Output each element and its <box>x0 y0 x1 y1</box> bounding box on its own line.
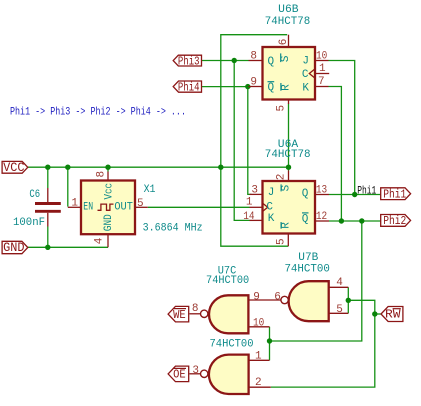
svg-text:Phi1: Phi1 <box>383 187 406 201</box>
svg-text:6: 6 <box>274 291 281 303</box>
svg-text:5: 5 <box>336 304 343 316</box>
junction Phi2 node A <box>339 218 344 223</box>
pin 8 U7C <box>189 313 200 315</box>
capacitor C6 bottom lead <box>47 213 49 227</box>
nand gate U7C body <box>209 295 248 333</box>
pin 4 U7B <box>329 286 349 288</box>
svg-text:Q: Q <box>302 214 309 226</box>
svg-text:Vcc: Vcc <box>103 183 115 200</box>
junction RW node <box>372 311 377 316</box>
svg-text:100nF: 100nF <box>13 217 45 229</box>
pin 3 U7A <box>189 373 200 375</box>
pin 12 U6A <box>315 220 330 222</box>
pin 6 U6B <box>288 35 290 48</box>
pin 5 X1 OUT <box>135 206 148 208</box>
svg-text:R: R <box>280 84 292 91</box>
wire U6A Qbar to Phi2 label <box>329 220 381 222</box>
junction VCC-U6B-S-line <box>218 165 223 170</box>
svg-text:14: 14 <box>243 211 255 223</box>
svg-text:8: 8 <box>250 50 257 62</box>
svg-text:3: 3 <box>251 184 258 196</box>
svg-text:GND: GND <box>103 214 115 231</box>
global label WE <box>168 306 189 322</box>
pin 13 U6A <box>315 194 330 196</box>
overline Qbar U6B <box>268 81 275 83</box>
svg-text:9: 9 <box>250 77 257 89</box>
pin 9 U7C / pin 6 U7B <box>249 299 282 301</box>
pin 5 U6B <box>288 100 290 105</box>
wire Phi3 to U6A K <box>234 61 249 221</box>
U6A clock triangle <box>263 203 268 211</box>
global label GND <box>2 241 28 253</box>
svg-text:U7B: U7B <box>298 252 318 264</box>
svg-text:RW: RW <box>385 308 401 322</box>
overline Qbar U6A <box>302 212 309 214</box>
svg-text:K: K <box>268 213 275 225</box>
svg-text:74HCT00: 74HCT00 <box>284 264 330 276</box>
capacitor C6 plates <box>35 202 61 205</box>
svg-text:12: 12 <box>316 211 327 223</box>
pin 5 U6A <box>287 233 289 246</box>
svg-text:5: 5 <box>276 105 288 112</box>
X1 square-wave symbol <box>98 204 114 210</box>
wire U6B R / U6A S to VCC <box>288 104 290 171</box>
wire U7C pin10 to U7A pin1 <box>269 327 271 361</box>
svg-text:S: S <box>281 184 293 191</box>
svg-text:5: 5 <box>276 238 288 245</box>
nand gate U7B body <box>289 281 329 321</box>
U7A output bubble <box>201 370 208 377</box>
junction VCC-U6B-R <box>286 165 291 170</box>
svg-text:1: 1 <box>319 63 326 75</box>
junction Phi4 tap <box>245 84 250 89</box>
svg-text:C6: C6 <box>29 189 40 201</box>
svg-text:2: 2 <box>255 377 262 389</box>
svg-text:Q: Q <box>302 188 309 200</box>
svg-text:X1: X1 <box>144 184 156 196</box>
svg-text:4: 4 <box>336 277 343 289</box>
pin 2 U6A <box>288 171 290 182</box>
svg-text:10: 10 <box>253 317 264 329</box>
pin 14 U6A <box>250 219 263 221</box>
wire VCC to X1 Vcc pin <box>107 167 109 171</box>
wire GND rail <box>28 246 108 248</box>
wire U6A Q to Phi1 label <box>329 194 381 196</box>
svg-text:74HCT00: 74HCT00 <box>206 275 249 287</box>
wire U7B inputs to RW and U7A pin2 <box>271 300 375 387</box>
global label VCC <box>2 161 28 173</box>
wire X1 OUT to U6A C <box>148 206 250 208</box>
global label OE <box>168 366 189 382</box>
svg-text:J: J <box>302 55 309 67</box>
pin 2 U7A <box>249 386 271 388</box>
svg-text:OUT: OUT <box>114 202 133 214</box>
svg-text:K: K <box>302 82 309 94</box>
wire Phi2 down to U7C input <box>270 221 362 341</box>
flip-flop U6A body <box>263 181 316 234</box>
pin 10 U7C <box>249 326 270 328</box>
svg-text:3: 3 <box>192 365 199 377</box>
svg-text:Phi4: Phi4 <box>178 80 200 94</box>
pin 9 U6B <box>249 86 263 88</box>
wire Phi4 horizontal <box>202 86 252 88</box>
wire U7B input tie <box>347 287 349 313</box>
pin 10 U6B <box>315 60 329 62</box>
junction U7B input node <box>346 298 351 303</box>
svg-text:C: C <box>302 69 309 81</box>
svg-text:GND: GND <box>3 241 24 255</box>
U6B clock triangle <box>309 69 314 77</box>
svg-text:13: 13 <box>316 184 327 196</box>
svg-text:74HCT78: 74HCT78 <box>265 16 310 28</box>
global label Phi4 <box>173 81 201 92</box>
pin 5 U7B <box>329 312 349 314</box>
global label Phi1 <box>381 188 411 200</box>
pin 7 U6B <box>315 86 329 88</box>
junction Phi2 node B <box>359 218 364 223</box>
svg-text:Phi1 -> Phi3 -> Phi2 -> Phi4 -: Phi1 -> Phi3 -> Phi2 -> Phi4 -> ... <box>10 106 186 118</box>
pin 1 U6B (unconnected) <box>315 73 330 75</box>
wire Phi4 to U6A J <box>248 87 252 195</box>
svg-text:4: 4 <box>94 237 106 244</box>
wire C6 top <box>47 167 49 188</box>
wire U6B S to VCC <box>221 35 287 168</box>
svg-text:EN: EN <box>83 202 93 214</box>
wire C6 bottom <box>47 227 49 248</box>
junction GND-C6 <box>45 245 50 250</box>
wire U6B J to Phi1 net <box>329 61 355 195</box>
global label Phi3 <box>173 55 201 66</box>
oscillator X1 body <box>81 181 135 235</box>
U7C output bubble <box>201 310 208 317</box>
svg-text:2: 2 <box>276 174 288 181</box>
pin 1 U6A <box>250 206 263 208</box>
svg-text:1: 1 <box>255 350 262 362</box>
capacitor C6 top lead <box>47 188 49 202</box>
junction Phi1 node <box>352 192 357 197</box>
svg-text:3.6864 MHz: 3.6864 MHz <box>143 222 203 234</box>
svg-text:Q: Q <box>268 56 275 68</box>
wire VCC rail <box>28 166 289 168</box>
svg-text:6: 6 <box>278 39 290 46</box>
junction VCC-EN <box>65 165 70 170</box>
svg-text:J: J <box>268 187 275 199</box>
nand gate U7A body <box>209 355 249 394</box>
pin 1 U7A <box>249 359 270 361</box>
global label Phi2 <box>381 215 411 227</box>
pin 3 U6A <box>250 193 263 195</box>
pin 1 X1 EN <box>68 206 82 208</box>
wire VCC to U6A R <box>221 167 288 246</box>
svg-text:1: 1 <box>246 196 253 208</box>
wire U6B K to Phi2 net <box>329 87 342 222</box>
junction Phi3 tap <box>232 58 237 63</box>
pin 8 X1 Vcc <box>107 172 109 182</box>
svg-text:U6B: U6B <box>278 4 299 16</box>
U7B output bubble <box>281 296 288 303</box>
svg-text:10: 10 <box>316 50 327 62</box>
junction U7C pin10 node <box>267 338 272 343</box>
svg-text:WE: WE <box>173 308 186 322</box>
svg-text:9: 9 <box>253 291 260 303</box>
junction VCC-C6 <box>45 165 50 170</box>
svg-text:8: 8 <box>192 303 199 315</box>
svg-text:OE: OE <box>173 368 186 382</box>
pin 8 U6B <box>249 60 263 62</box>
svg-text:1: 1 <box>71 198 78 210</box>
flip-flop U6B body <box>263 47 316 100</box>
svg-text:C: C <box>266 202 273 214</box>
global label RW <box>381 307 403 322</box>
wire RW label stub <box>375 313 381 315</box>
wire Phi3 horizontal <box>202 60 249 62</box>
svg-text:5: 5 <box>137 198 144 210</box>
pin 4 X1 GND <box>107 234 109 248</box>
svg-text:8: 8 <box>96 171 108 178</box>
junction VCC-X1 <box>105 165 110 170</box>
svg-text:R: R <box>281 222 293 229</box>
wire VCC to X1 EN <box>67 167 69 206</box>
svg-text:Phi2: Phi2 <box>383 214 406 228</box>
svg-text:7: 7 <box>318 76 325 88</box>
svg-text:Phi3: Phi3 <box>178 54 200 68</box>
svg-text:VCC: VCC <box>3 161 24 175</box>
svg-text:Q: Q <box>268 82 275 94</box>
svg-text:Phi1: Phi1 <box>357 185 376 197</box>
svg-text:74HCT78: 74HCT78 <box>265 149 311 161</box>
svg-text:S: S <box>280 55 292 62</box>
svg-text:74HCT00: 74HCT00 <box>210 339 254 351</box>
